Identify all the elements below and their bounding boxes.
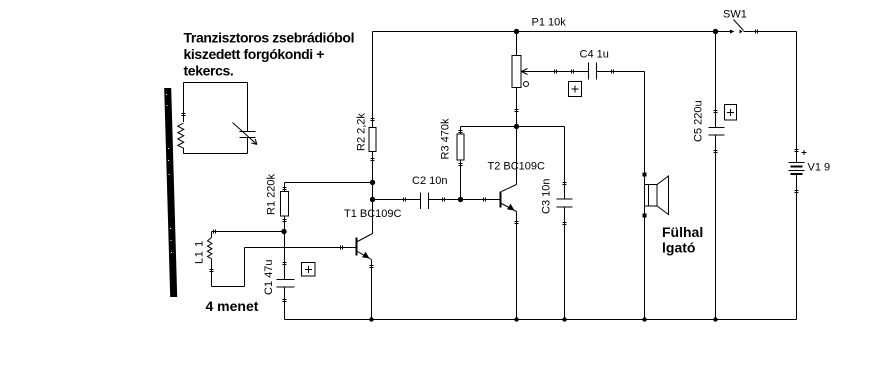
svg-text:C1 47u: C1 47u bbox=[263, 260, 275, 295]
svg-text:C4 1u: C4 1u bbox=[580, 49, 609, 61]
svg-text:kiszedett forgókondi +: kiszedett forgókondi + bbox=[184, 46, 325, 62]
svg-text:V1 9: V1 9 bbox=[808, 162, 831, 174]
svg-text:lgató: lgató bbox=[662, 240, 695, 256]
svg-text:R3 470k: R3 470k bbox=[440, 118, 452, 159]
svg-text:R1 220k: R1 220k bbox=[266, 174, 278, 215]
svg-text:T2 BC109C: T2 BC109C bbox=[488, 161, 546, 173]
svg-text:C3 10n: C3 10n bbox=[541, 179, 553, 214]
svg-text:R2 2,2k: R2 2,2k bbox=[356, 113, 368, 151]
svg-text:C2 10n: C2 10n bbox=[412, 175, 447, 187]
svg-text:P1 10k: P1 10k bbox=[532, 17, 567, 29]
svg-text:C5 220u: C5 220u bbox=[693, 100, 705, 142]
svg-text:SW1: SW1 bbox=[723, 9, 747, 21]
svg-text:Tranzisztoros zsebrádióbol: Tranzisztoros zsebrádióbol bbox=[184, 30, 355, 46]
svg-text:4 menet: 4 menet bbox=[206, 298, 259, 314]
svg-text:tekercs.: tekercs. bbox=[184, 63, 234, 79]
svg-text:Fülhal: Fülhal bbox=[662, 224, 703, 240]
svg-text:L1 1: L1 1 bbox=[194, 240, 206, 264]
svg-text:T1 BC109C: T1 BC109C bbox=[344, 208, 402, 220]
